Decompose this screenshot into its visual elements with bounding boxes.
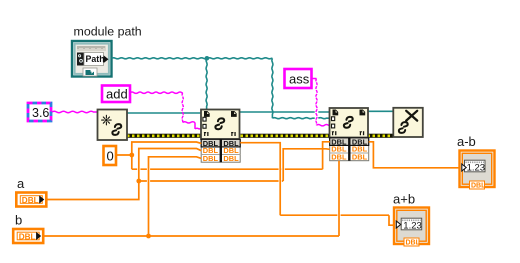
wire: path branch down/right into python node U3 (272, 58, 273, 118)
terminals U2 (DBL rows) (201, 139, 240, 163)
svg-text:b: b (15, 213, 22, 228)
wire: a -> U2 param (46, 149, 201, 200)
svg-text:1.23: 1.23 (403, 221, 422, 232)
svg-text:add: add (106, 87, 128, 102)
op: Open Python Session U1 (98, 110, 128, 141)
terminals U3 (DBL rows) (330, 137, 369, 161)
node: path wire junction (205, 56, 210, 61)
wire: 0 -> U2 param (116, 142, 201, 155)
op: Close Python Session U4 (393, 108, 423, 137)
wire: b -> U2 param (43, 157, 201, 236)
svg-text:ass: ass (289, 72, 310, 87)
path control (module path) (72, 41, 112, 77)
svg-text:DBL: DBL (19, 233, 36, 242)
svg-text:1.23: 1.23 (467, 163, 486, 174)
svg-text:DBL: DBL (22, 196, 39, 205)
wire: "ass" -> U3 function name (312, 78, 317, 80)
svg-text:module path: module path (74, 25, 142, 39)
string constant "3.6" (selected, marching ants) (28, 103, 51, 121)
svg-text:a: a (17, 176, 25, 191)
indicator a+b (DBL) (394, 208, 429, 247)
svg-text:DBL: DBL (352, 152, 368, 161)
svg-text:DBL: DBL (203, 154, 219, 163)
svg-text:a-b: a-b (457, 134, 476, 149)
op: Python Node U2 (add) (201, 110, 240, 140)
op: Python Node U3 (ass) (330, 108, 369, 138)
indicator a-b (DBL) (460, 151, 495, 190)
wire: python session U2->U3 (240, 111, 330, 113)
wire: python session U3->U4 (368, 110, 394, 112)
wire: path branch down into python node U2 (206, 58, 207, 109)
wire: U3 result -> a-b indicator (369, 142, 460, 168)
svg-text:DBL: DBL (406, 240, 421, 247)
string constant "ass" (285, 69, 312, 88)
svg-text:DBL: DBL (223, 154, 239, 163)
wire: b branch -> U3 param (enters row bottom) (149, 235, 340, 237)
string constant "add" (102, 86, 130, 103)
wire: U2 result -> a+b indicator (240, 143, 280, 216)
wire: "add" -> U2 function name (130, 92, 183, 93)
numeric constant "0" (104, 146, 117, 165)
svg-text:DBL: DBL (471, 183, 486, 190)
control a (DBL) (16, 193, 46, 207)
svg-text:3.6: 3.6 (32, 106, 49, 120)
svg-text:0: 0 (107, 149, 114, 164)
svg-text:a+b: a+b (393, 192, 415, 207)
wire: "3.6" -> U1 (string) (52, 111, 97, 112)
wire: a branch -> U3 param (139, 180, 283, 182)
wire: python session U1->U2 (127, 112, 201, 114)
svg-text:DBL: DBL (331, 152, 347, 161)
control b (DBL) (13, 229, 43, 243)
wire: error cluster 240.5-329.5 (241, 134, 330, 138)
wire: error cluster 367.5-393 (368, 134, 394, 138)
svg-text:Path: Path (86, 54, 105, 64)
wire: module path (top run) (112, 58, 273, 59)
wire: 0 branch -> U3 param (131, 155, 133, 169)
wire: error cluster 127-201 (127, 134, 201, 138)
